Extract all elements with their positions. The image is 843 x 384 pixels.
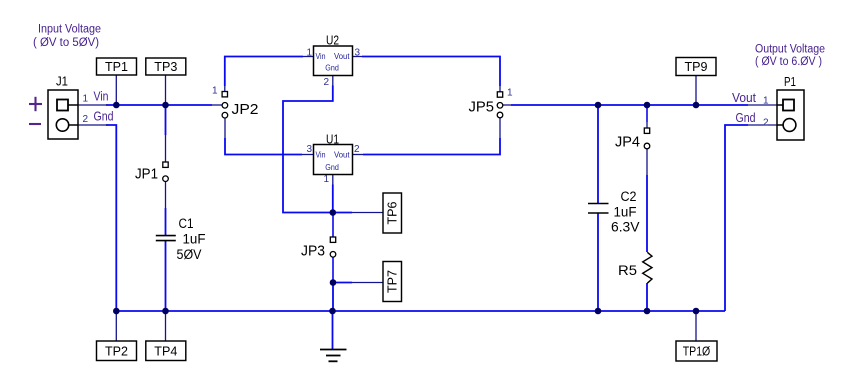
pin lead U1 pin1 xyxy=(332,175,334,185)
testpoint TP3 xyxy=(146,58,186,75)
svg-text:3: 3 xyxy=(355,48,361,59)
svg-text:R5: R5 xyxy=(618,263,637,278)
svg-text:Input Voltage: Input Voltage xyxy=(38,24,101,36)
ground symbol xyxy=(320,350,347,362)
junction JP3-TP7 xyxy=(330,279,337,286)
svg-text:Gnd: Gnd xyxy=(325,162,339,172)
svg-text:TP1Ø: TP1Ø xyxy=(683,345,711,359)
svg-text:JP1: JP1 xyxy=(135,167,158,183)
junction rail-C2 xyxy=(595,308,602,315)
svg-text:2: 2 xyxy=(354,144,360,155)
junction Vin-TP1 xyxy=(113,102,120,109)
wire JP4 pin1 to vout rail xyxy=(646,105,648,122)
svg-text:J1: J1 xyxy=(56,74,68,89)
svg-text:TP9: TP9 xyxy=(685,60,708,74)
pin lead TP6 xyxy=(352,212,383,214)
wire JP2 pin3 down to U1 Vin xyxy=(225,138,302,155)
pin lead TP7 xyxy=(352,282,383,284)
wire TP3 branch down to JP1 xyxy=(165,105,167,135)
testpoint TP9 xyxy=(676,58,716,76)
pin lead U2 pin3 xyxy=(353,56,363,58)
minus symbol xyxy=(29,123,41,125)
pin lead J1 pin1 xyxy=(78,104,108,106)
svg-text:1: 1 xyxy=(324,174,330,185)
svg-text:1: 1 xyxy=(307,48,313,59)
svg-text:TP1: TP1 xyxy=(105,60,128,74)
jumper JP3 xyxy=(330,237,336,257)
wire JP5 pin2 to P1 Vout xyxy=(511,104,748,106)
wire U2 Vout to JP5 pin1 xyxy=(362,57,500,87)
junction rail-TP2 xyxy=(113,308,120,315)
regulator U1 xyxy=(314,145,353,175)
pin lead JP1 pin2 xyxy=(165,182,167,209)
svg-text:Vout: Vout xyxy=(732,90,756,105)
svg-text:1: 1 xyxy=(83,94,89,105)
svg-text:5ØV: 5ØV xyxy=(177,247,202,262)
wire C2 to rail xyxy=(597,214,599,312)
svg-text:JP2: JP2 xyxy=(232,102,259,118)
svg-text:JP3: JP3 xyxy=(301,244,325,260)
svg-text:Gnd: Gnd xyxy=(736,110,756,125)
jumper JP2 xyxy=(222,92,228,118)
svg-text:1uF: 1uF xyxy=(183,232,206,247)
pin lead P1 pin2 xyxy=(748,124,777,126)
pin lead U1 pin2 xyxy=(353,154,364,156)
plus symbol xyxy=(29,97,42,111)
svg-text:( ØV to 5ØV): ( ØV to 5ØV) xyxy=(33,37,99,49)
svg-text:2: 2 xyxy=(324,77,330,88)
svg-text:Vout: Vout xyxy=(334,149,350,159)
wire JP2 pin1 up to U2 Vin xyxy=(225,57,303,87)
pin lead JP1 pin1 xyxy=(165,135,167,162)
wire JP3 pin1 lead xyxy=(332,213,334,238)
svg-text:( ØV to 6.ØV ): ( ØV to 6.ØV ) xyxy=(755,56,822,68)
wire U2 Gnd route to TP6 line xyxy=(283,86,352,213)
wire U1 Gnd down xyxy=(332,185,334,213)
junction Vin-TP3 xyxy=(162,102,169,109)
pin lead TP3 xyxy=(165,75,167,105)
jumper JP1 xyxy=(163,162,169,182)
junction vout-TP9 xyxy=(693,102,700,109)
svg-text:Vin: Vin xyxy=(94,89,109,104)
pin lead TP1 xyxy=(115,75,117,105)
wire P1 Gnd route down xyxy=(725,125,748,311)
svg-text:Vin: Vin xyxy=(316,51,326,61)
connector J1 xyxy=(48,90,78,139)
wire JP3 pin2 lead xyxy=(332,257,334,283)
capacitor C1 xyxy=(156,236,176,241)
wire C2 branch top xyxy=(597,105,599,203)
svg-text:U1: U1 xyxy=(326,132,339,147)
pin lead U2 pin1 xyxy=(303,56,314,58)
junction rail-gndsym xyxy=(329,308,336,315)
testpoint TP10 xyxy=(676,341,717,361)
svg-text:TP4: TP4 xyxy=(154,345,177,359)
wire JP1 to C1 xyxy=(165,208,167,235)
pin lead J1 pin2 xyxy=(78,124,108,126)
pin lead P1 pin1 xyxy=(748,104,777,106)
wire JP4 lower to R5 xyxy=(646,175,648,252)
testpoint TP2 xyxy=(97,341,137,361)
label Input Voltage xyxy=(33,24,101,49)
svg-text:C2: C2 xyxy=(621,189,637,204)
svg-text:Gnd: Gnd xyxy=(94,109,114,124)
pin lead JP2 pin2 xyxy=(212,104,222,106)
wire TP7 branch xyxy=(333,282,352,284)
regulator U2 xyxy=(314,46,353,76)
pin lead JP2 pin3 xyxy=(224,118,226,138)
pin lead JP5 pin3 xyxy=(499,118,501,139)
pin lead TP4 xyxy=(165,311,167,341)
svg-text:1: 1 xyxy=(212,86,218,97)
svg-text:6.3V: 6.3V xyxy=(611,220,640,235)
testpoint TP1 xyxy=(97,58,137,75)
connector P1 xyxy=(777,90,804,140)
resistor R5 xyxy=(643,252,652,283)
svg-text:JP4: JP4 xyxy=(615,135,640,151)
svg-text:1: 1 xyxy=(507,88,513,99)
svg-text:1uF: 1uF xyxy=(614,205,637,220)
testpoint TP7 xyxy=(383,262,402,302)
svg-text:C1: C1 xyxy=(179,216,194,231)
testpoint TP4 xyxy=(146,341,186,361)
pin lead JP5 pin2 xyxy=(503,104,512,106)
wire R5 to rail xyxy=(646,283,648,311)
testpoint TP6 xyxy=(383,193,402,233)
pin lead U2 pin2 xyxy=(332,76,334,86)
junction rail-C1 xyxy=(162,308,169,315)
pin lead U1 pin3 xyxy=(302,154,314,156)
svg-text:2: 2 xyxy=(83,114,89,125)
pin lead TP10 xyxy=(695,311,697,341)
svg-text:Vout: Vout xyxy=(334,51,350,61)
capacitor C2 xyxy=(588,204,609,214)
svg-text:TP3: TP3 xyxy=(154,60,177,74)
junction vout-C2 xyxy=(595,102,602,109)
svg-text:Vin: Vin xyxy=(316,149,326,159)
wire bottom ground rail xyxy=(116,310,725,312)
pin lead JP2 pin1 xyxy=(224,86,226,92)
pin lead TP9 xyxy=(695,75,697,105)
svg-text:TP2: TP2 xyxy=(105,345,128,359)
jumper JP4 xyxy=(644,128,650,149)
pin lead JP4 pin1 xyxy=(646,122,648,128)
svg-text:P1: P1 xyxy=(784,74,796,89)
junction gnd-line TP6 xyxy=(330,209,337,216)
wire J1 gnd route xyxy=(106,125,116,311)
svg-text:TP6: TP6 xyxy=(385,201,399,224)
pin lead TP2 xyxy=(115,311,117,341)
pin lead JP5 pin1 xyxy=(499,86,501,92)
wire U1 Vout to JP5 pin3 xyxy=(363,138,500,155)
label Output Voltage xyxy=(755,44,825,69)
svg-text:2: 2 xyxy=(763,118,769,129)
wire JP3 pin2 to rail xyxy=(332,283,334,312)
svg-text:TP7: TP7 xyxy=(385,270,399,293)
junction rail-TP10 xyxy=(693,308,700,315)
wire C1 to rail xyxy=(165,241,167,311)
junction vout-JP4 xyxy=(644,102,651,109)
svg-text:1: 1 xyxy=(763,96,769,107)
wire Vin main horizontal xyxy=(106,104,212,106)
svg-text:U2: U2 xyxy=(326,33,339,48)
wire ground stub xyxy=(332,311,334,349)
jumper JP5 xyxy=(497,92,503,118)
junction rail-R5 xyxy=(644,308,651,315)
svg-text:3: 3 xyxy=(307,144,313,155)
svg-text:Output Voltage: Output Voltage xyxy=(755,44,825,56)
svg-text:JP5: JP5 xyxy=(469,100,495,116)
svg-text:Gnd: Gnd xyxy=(325,62,339,72)
pin lead JP4 pin2 xyxy=(646,149,648,175)
